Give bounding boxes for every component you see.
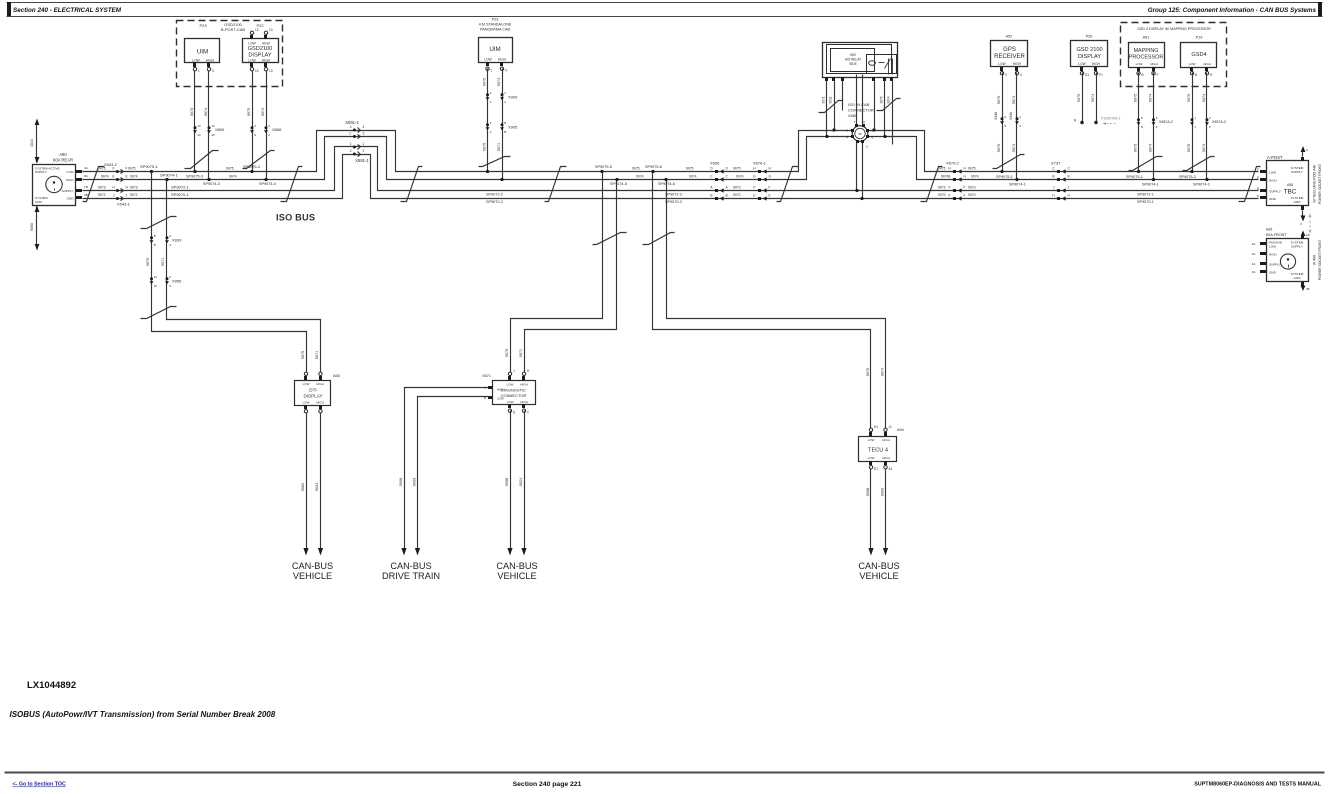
A90 pin GND	[76, 196, 82, 199]
svg-text:9024: 9024	[519, 478, 523, 486]
wire tap diagnostic HIGH from line2	[525, 180, 617, 375]
wire MAPPING HIGH to bus	[1153, 73, 1155, 180]
svg-text:HIGH: HIGH	[520, 383, 528, 387]
GSD2100 bottom pin HIGH	[264, 63, 267, 67]
twisted slash before TBC	[1239, 167, 1261, 202]
svg-text:UIM: UIM	[197, 49, 208, 56]
svg-text:SIDE: SIDE	[849, 62, 856, 66]
svg-text:VEHICLE: VEHICLE	[859, 571, 898, 581]
svg-text:3B: 3B	[84, 193, 88, 197]
svg-text:9074: 9074	[636, 175, 644, 179]
wire UIM2 HIGH to bus	[502, 69, 504, 180]
svg-text:SP9072-3: SP9072-3	[665, 192, 682, 196]
svg-text:3: 3	[363, 131, 365, 135]
svg-text:LOW: LOW	[303, 401, 310, 405]
svg-text:SUPPLY: SUPPLY	[1269, 190, 1281, 194]
wire diag to CAN-BUS DRIVE TRAIN (high)	[405, 388, 489, 549]
svg-text:4: 4	[490, 121, 492, 125]
A90 pin LOW	[76, 170, 82, 173]
svg-text:9074: 9074	[497, 78, 501, 86]
svg-text:SP9074-1: SP9074-1	[1009, 182, 1026, 186]
svg-text:C: C	[710, 174, 713, 178]
wire MAPPING LOW to bus	[1138, 73, 1140, 172]
svg-text:4A: 4A	[1252, 242, 1257, 246]
svg-text:SP9074-1: SP9074-1	[1142, 182, 1159, 186]
svg-text:CAN-BUS: CAN-BUS	[292, 561, 333, 571]
svg-text:9071: 9071	[822, 96, 826, 103]
svg-text:B: B	[1142, 73, 1144, 77]
svg-text:9: 9	[1004, 115, 1006, 119]
connector X946 on GPS HIGH	[1016, 117, 1019, 120]
A81 pin LOW	[1260, 242, 1266, 245]
svg-text:4014: 4014	[30, 139, 34, 147]
svg-text:9075: 9075	[1187, 94, 1191, 102]
svg-text:DISPLAY: DISPLAY	[1078, 54, 1101, 60]
svg-text:X905: X905	[508, 125, 518, 130]
header left black bar	[7, 2, 11, 16]
svg-text:1: 1	[363, 142, 365, 146]
svg-text:SUPPLY: SUPPLY	[62, 189, 74, 193]
wire X685 bottom pin to line3	[856, 143, 858, 191]
svg-text:3: 3	[212, 69, 214, 73]
UIM pin LOW	[193, 63, 196, 67]
A81 bottom pin	[1301, 282, 1304, 286]
svg-text:D: D	[710, 166, 713, 170]
svg-text:LOW: LOW	[868, 438, 875, 442]
svg-text:4A: 4A	[84, 166, 89, 170]
TECU pin top HIGH	[884, 432, 887, 436]
svg-text:RECEIVER: RECEIVER	[994, 54, 1025, 60]
svg-text:9073: 9073	[130, 186, 138, 190]
svg-text:HIGH: HIGH	[1269, 179, 1277, 183]
svg-text:ISO IN CAB: ISO IN CAB	[848, 102, 870, 107]
diag left pin HIGH	[488, 386, 492, 389]
relay wire stub 3	[842, 81, 844, 111]
svg-text:VEHICLE: VEHICLE	[293, 571, 332, 581]
svg-text:DRIVE TRAIN: DRIVE TRAIN	[382, 571, 440, 581]
wire tap TECU LOW from line1	[653, 172, 871, 431]
svg-text:9008: 9008	[399, 478, 403, 486]
svg-text:9071: 9071	[497, 143, 501, 151]
TBC pin GND	[1260, 196, 1266, 199]
svg-text:9009: 9009	[881, 488, 885, 496]
svg-text:F: F	[1156, 116, 1158, 120]
svg-text:H: H	[753, 166, 756, 170]
svg-text:LOW: LOW	[248, 59, 255, 63]
wire tap to DTI LOW from line1	[152, 172, 307, 375]
slash DTI pair upper	[141, 217, 177, 229]
svg-text:HIGH: HIGH	[882, 438, 890, 442]
svg-text:B: B	[154, 234, 156, 238]
diag pin bottom LOW	[508, 404, 511, 408]
svg-text:4: 4	[490, 130, 492, 134]
diag left pin LOW	[488, 396, 492, 399]
svg-text:9075: 9075	[1134, 94, 1138, 102]
svg-text:ISO RELAY: ISO RELAY	[845, 58, 862, 62]
svg-text:HIGH: HIGH	[520, 400, 528, 404]
svg-text:9: 9	[1005, 73, 1007, 77]
svg-text:4: 4	[505, 69, 507, 73]
svg-text:9074: 9074	[1202, 144, 1206, 152]
svg-text:P26: P26	[1086, 35, 1093, 39]
A81 pin GND	[1260, 270, 1266, 273]
svg-text:B: B	[710, 193, 712, 197]
svg-text:4: 4	[490, 100, 492, 104]
svg-text:E: E	[753, 193, 755, 197]
slash GSD4 pair	[1183, 157, 1215, 171]
svg-text:A: A	[1306, 148, 1308, 152]
svg-text:SP9072-1: SP9072-1	[1137, 192, 1154, 196]
svg-text:2: 2	[350, 149, 352, 153]
svg-text:W/ TECU AND ROO 448: W/ TECU AND ROO 448	[1313, 165, 1317, 203]
svg-text:N: N	[1074, 119, 1077, 123]
svg-text:B: B	[726, 193, 728, 197]
svg-text:9074: 9074	[736, 175, 744, 179]
svg-text:H: H	[126, 185, 129, 189]
svg-text:9062: 9062	[301, 483, 305, 491]
svg-text:G: G	[948, 174, 951, 178]
wire tap diagnostic LOW from line1	[511, 172, 603, 375]
svg-text:E1: E1	[874, 467, 878, 471]
svg-text:9: 9	[254, 133, 256, 137]
svg-text:8A: 8A	[84, 174, 89, 178]
svg-text:B: B	[504, 121, 506, 125]
svg-text:LOW: LOW	[868, 456, 875, 460]
svg-text:F: F	[1257, 168, 1259, 172]
svg-text:HIGH: HIGH	[316, 382, 324, 386]
svg-text:9071: 9071	[315, 351, 319, 359]
svg-text:B: B	[1052, 174, 1054, 178]
svg-text:9075: 9075	[190, 108, 194, 116]
ecu box GSD2100 DISPLAY	[243, 39, 279, 63]
svg-text:X591-2: X591-2	[345, 120, 359, 125]
A81 power socket symbol	[1280, 254, 1295, 269]
footer rule	[5, 772, 1325, 774]
DTI pin top HIGH	[319, 376, 322, 380]
svg-text:SUPPLY: SUPPLY	[1291, 244, 1303, 248]
svg-text:CAN-BUS: CAN-BUS	[858, 561, 899, 571]
svg-text:SUPPLY: SUPPLY	[35, 170, 47, 174]
svg-text:H: H	[1068, 193, 1071, 197]
svg-text:2: 2	[268, 133, 270, 137]
svg-text:J: J	[1053, 185, 1055, 189]
svg-text:<- Go to Section TOC: <- Go to Section TOC	[13, 782, 66, 788]
svg-text:C: C	[349, 131, 352, 135]
svg-text:A65: A65	[333, 374, 340, 378]
wire ISO bus CAN HIGH 9074 (line 2)	[83, 137, 853, 180]
svg-text:LOW: LOW	[507, 383, 514, 387]
svg-text:SP9072-2: SP9072-2	[486, 192, 503, 196]
svg-text:J: J	[513, 369, 515, 373]
X685 pins	[851, 129, 854, 132]
svg-text:POWER SOCKET FRONT: POWER SOCKET FRONT	[1318, 240, 1322, 280]
svg-text:9075: 9075	[938, 167, 946, 171]
wire diag bottom HIGH to CAN-BUS VEHICLE	[524, 411, 526, 549]
svg-text:D: D	[726, 166, 729, 170]
svg-text:GSD4: GSD4	[1191, 52, 1206, 58]
svg-text:U: U	[863, 120, 865, 124]
wire UIM HIGH to bus	[208, 71, 210, 180]
svg-text:SP9075-1: SP9075-1	[996, 175, 1013, 179]
svg-text:9: 9	[169, 284, 171, 288]
svg-text:J1: J1	[889, 425, 893, 429]
svg-text:13: 13	[269, 28, 273, 32]
relay wire stub 5	[884, 81, 886, 137]
svg-text:9075: 9075	[866, 368, 870, 376]
slash GSD2100 pair	[243, 151, 275, 169]
svg-text:HIGH: HIGH	[498, 58, 507, 62]
svg-text:9075: 9075	[733, 167, 741, 171]
svg-text:F: F	[964, 185, 966, 189]
svg-text:1B: 1B	[1306, 233, 1310, 237]
TECU pin bottom LOW	[869, 461, 872, 465]
svg-text:9073: 9073	[98, 186, 106, 190]
svg-text:4: 4	[254, 124, 256, 128]
svg-text:X571: X571	[482, 374, 491, 378]
MAPPING pin LOW	[1137, 67, 1140, 71]
wire GSD2100 LOW to bus	[252, 71, 254, 172]
svg-text:SP9075-5: SP9075-5	[595, 165, 612, 169]
relay inner contact box	[867, 55, 897, 74]
svg-text:6: 6	[866, 145, 868, 149]
slash relay left pair	[819, 101, 843, 113]
svg-text:GSD2100: GSD2100	[248, 46, 273, 52]
svg-text:F: F	[113, 166, 115, 170]
A90 pin HIGH	[76, 178, 82, 181]
svg-text:X955: X955	[172, 279, 182, 284]
svg-text:X948: X948	[994, 112, 998, 120]
svg-text:Group 125: Component Informati: Group 125: Component Information - CAN B…	[1148, 7, 1317, 14]
svg-text:A94: A94	[897, 428, 904, 432]
svg-text:4: 4	[1019, 115, 1021, 119]
svg-text:P19: P19	[1196, 36, 1203, 40]
svg-text:E: E	[126, 174, 128, 178]
svg-text:H: H	[1210, 73, 1213, 77]
svg-text:G: G	[769, 174, 772, 178]
GSD4 pin LOW	[1190, 67, 1193, 71]
svg-text:H: H	[769, 166, 772, 170]
svg-text:F: F	[949, 193, 951, 197]
svg-text:PROCESSOR: PROCESSOR	[1129, 55, 1164, 61]
svg-text:2: 2	[504, 91, 506, 95]
A81 pin SUPPLY	[1260, 262, 1266, 265]
svg-text:CAN-BUS: CAN-BUS	[496, 561, 537, 571]
svg-text:9075: 9075	[968, 167, 976, 171]
svg-text:1B: 1B	[84, 185, 88, 189]
wire GSD2100 HIGH to bus	[266, 71, 268, 180]
svg-text:9009: 9009	[413, 478, 417, 486]
svg-text:SP9075-1: SP9075-1	[140, 164, 159, 169]
svg-text:N: N	[1141, 116, 1143, 120]
A90 top arrow 4014	[36, 125, 38, 163]
svg-text:9070: 9070	[968, 193, 976, 197]
svg-text:9: 9	[169, 275, 171, 279]
svg-text:H1: H1	[874, 425, 878, 429]
svg-text:9075: 9075	[1187, 144, 1191, 152]
svg-text:F: F	[964, 193, 966, 197]
svg-text:HIGH: HIGH	[262, 59, 271, 63]
svg-text:HIGH: HIGH	[497, 388, 505, 392]
connector X939 on DTI pair	[150, 236, 153, 239]
svg-text:F: F	[1156, 125, 1158, 129]
wire UIM LOW to bus	[194, 71, 196, 172]
TECU pin bottom HIGH	[884, 461, 887, 465]
svg-text:9008: 9008	[866, 488, 870, 496]
A90 pin SUPPLY	[76, 189, 82, 192]
twisted slash mid-left	[545, 167, 567, 202]
wire GSD4 HIGH to bus	[1206, 73, 1208, 180]
svg-text:2: 2	[504, 100, 506, 104]
svg-text:HIGH: HIGH	[1150, 62, 1158, 66]
svg-text:GND: GND	[1269, 271, 1277, 275]
svg-text:9074: 9074	[1012, 144, 1016, 152]
round connector X685	[852, 126, 868, 142]
svg-text:SP9074-1: SP9074-1	[160, 172, 179, 177]
svg-text:9074: 9074	[1202, 94, 1206, 102]
MAPPING pin HIGH	[1152, 67, 1155, 71]
connector X997A-2 on GSD4 wires	[1191, 118, 1194, 121]
svg-text:HIGH: HIGH	[66, 178, 74, 182]
wire GPS LOW to bus	[1002, 73, 1004, 172]
svg-text:9074: 9074	[1012, 96, 1016, 104]
header rule bottom	[7, 16, 1323, 18]
svg-text:9074: 9074	[1091, 94, 1095, 102]
wire TECU HIGH to CAN-BUS VEHICLE	[885, 469, 887, 549]
svg-text:HIGH: HIGH	[316, 401, 324, 405]
connector X955 on DTI pair	[150, 277, 153, 280]
ecu box MAPPING PROCESSOR	[1129, 43, 1165, 68]
svg-text:DTI: DTI	[309, 388, 316, 393]
svg-text:DIAGNOSTIC: DIAGNOSTIC	[501, 388, 526, 393]
svg-text:P23: P23	[199, 23, 207, 28]
connector X856 on GSD2100 wires	[251, 126, 254, 129]
svg-text:A-POST: A-POST	[1267, 155, 1283, 160]
svg-text:LOW: LOW	[1136, 62, 1143, 66]
svg-text:GND: GND	[35, 200, 43, 204]
svg-text:J: J	[126, 193, 128, 197]
svg-text:9074: 9074	[881, 368, 885, 376]
svg-text:9073: 9073	[733, 186, 741, 190]
svg-text:E: E	[112, 174, 114, 178]
svg-text:2A: 2A	[1252, 252, 1257, 256]
wire X685 top pins to relay	[856, 75, 858, 125]
GSD4 pin HIGH	[1205, 67, 1208, 71]
svg-text:2: 2	[363, 149, 365, 153]
svg-text:Section 240 page 221: Section 240 page 221	[513, 781, 582, 788]
slash GPS pair	[993, 155, 1025, 169]
svg-text:E: E	[769, 193, 771, 197]
svg-text:HIGH: HIGH	[882, 456, 890, 460]
svg-text:X939: X939	[172, 238, 182, 243]
svg-text:SP9074-3: SP9074-3	[203, 182, 220, 186]
svg-text:LOW: LOW	[484, 58, 491, 62]
dashed harness box GSD2100 B-POST-CAB	[177, 21, 283, 87]
svg-text:SP9070-1: SP9070-1	[171, 192, 190, 197]
svg-text:9070: 9070	[938, 193, 946, 197]
svg-text:ISOBUS (AutoPowr/IVT Transmiss: ISOBUS (AutoPowr/IVT Transmission) from …	[10, 710, 276, 719]
svg-text:14: 14	[197, 124, 201, 128]
svg-text:A: A	[726, 185, 729, 189]
slash DTI pair lower	[141, 307, 177, 319]
A90 bottom arrow 9060	[36, 207, 38, 245]
page header rule top	[7, 2, 1323, 4]
svg-text:9074: 9074	[261, 108, 265, 116]
UIM pin HIGH	[207, 63, 210, 67]
svg-text:14: 14	[197, 133, 201, 137]
svg-text:9072: 9072	[130, 193, 138, 197]
svg-text:D1: D1	[1085, 73, 1089, 77]
svg-text:LOW: LOW	[192, 59, 199, 63]
TBC pin SUPPLY	[1260, 189, 1266, 192]
svg-text:1A: 1A	[1252, 262, 1257, 266]
wire UIM2 LOW to bus	[487, 69, 489, 172]
TBC top pin arrow	[1301, 157, 1304, 161]
svg-text:A55: A55	[1287, 183, 1293, 187]
svg-text:9058: 9058	[505, 478, 509, 486]
svg-text:UIM: UIM	[489, 46, 500, 53]
svg-text:9075: 9075	[997, 96, 1001, 104]
diag pin bottom HIGH	[522, 404, 525, 408]
twisted slash before ISO riser	[777, 167, 799, 202]
svg-text:HIGH: HIGH	[1013, 62, 1022, 66]
svg-text:9073: 9073	[938, 186, 946, 190]
svg-text:HIGH: HIGH	[262, 42, 271, 46]
svg-text:3A: 3A	[1252, 270, 1257, 274]
connector X591-1 inline pair on raised lines 3-4	[353, 146, 356, 149]
svg-text:4 M STANDALONE: 4 M STANDALONE	[479, 23, 512, 27]
svg-text:F: F	[754, 185, 756, 189]
wire ISO bus GND 9072 (line 4)	[83, 155, 1259, 199]
svg-text:4: 4	[490, 91, 492, 95]
svg-text:9011: 9011	[829, 96, 833, 103]
slash relay right pair	[877, 99, 901, 111]
svg-text:9075: 9075	[483, 78, 487, 86]
svg-text:SP9070-3: SP9070-3	[665, 200, 682, 204]
svg-text:N: N	[1141, 125, 1143, 129]
DTI pin top LOW	[304, 376, 307, 380]
relay wire stub 1	[826, 81, 828, 137]
svg-text:TBC: TBC	[1284, 189, 1297, 196]
svg-text:A51: A51	[1143, 36, 1150, 40]
svg-text:J: J	[113, 193, 115, 197]
stub wire GSD2100 P26 LOW	[1082, 73, 1084, 123]
svg-text:F: F	[1209, 116, 1211, 120]
wire diag bottom LOW to CAN-BUS VEHICLE	[510, 411, 512, 549]
svg-text:4: 4	[1019, 124, 1021, 128]
wire DTI LOW down to CAN-BUS VEHICLE arrow	[306, 413, 308, 549]
svg-text:GND: GND	[1294, 276, 1302, 280]
svg-text:ISO BUS: ISO BUS	[276, 213, 315, 223]
wire diag to CAN-BUS DRIVE TRAIN (low)	[418, 397, 489, 549]
svg-text:DISPLAY: DISPLAY	[303, 394, 322, 399]
svg-text:SP9075-2: SP9075-2	[1179, 175, 1196, 179]
svg-text:P1: P1	[1099, 73, 1103, 77]
svg-text:9060: 9060	[30, 223, 34, 231]
svg-text:SUPPLY: SUPPLY	[1269, 263, 1281, 267]
svg-text:X946: X946	[1009, 112, 1013, 120]
svg-text:PANORAMA CAB: PANORAMA CAB	[480, 28, 511, 32]
svg-text:B-POST-CAB: B-POST-CAB	[221, 27, 246, 32]
svg-text:60A FRONT: 60A FRONT	[1266, 233, 1287, 237]
svg-text:1: 1	[198, 69, 200, 73]
svg-text:10: 10	[154, 275, 158, 279]
svg-text:SP9075-1: SP9075-1	[1126, 175, 1143, 179]
svg-text:H: H	[1052, 193, 1055, 197]
svg-text:D: D	[1257, 194, 1260, 198]
svg-text:A52: A52	[1006, 35, 1013, 39]
svg-text:9074: 9074	[130, 175, 138, 179]
slash UIM pair	[185, 151, 219, 169]
